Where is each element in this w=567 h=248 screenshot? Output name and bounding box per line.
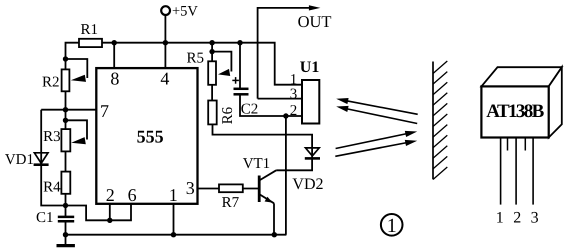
node emitter on ground rail — [272, 232, 277, 237]
svg-text:8: 8 — [110, 68, 119, 88]
wire to pins 2 and 6 — [66, 204, 132, 221]
IC U1 infrared receiver module — [300, 59, 320, 124]
svg-text:555: 555 — [137, 127, 164, 147]
resistor R3 (rheostat) — [43, 120, 87, 151]
node pin1 on ground rail — [171, 232, 176, 237]
node R5 on rail — [209, 40, 214, 45]
svg-text:R6: R6 — [220, 106, 236, 124]
svg-text:AT138B: AT138B — [486, 101, 544, 122]
svg-text:C1: C1 — [36, 210, 54, 226]
svg-text:R7: R7 — [222, 195, 240, 211]
mirror (reflective surface) — [433, 61, 447, 180]
svg-text:U1: U1 — [300, 59, 320, 76]
wire R3 to R4 — [65, 151, 67, 171]
svg-text:3: 3 — [290, 87, 298, 103]
node A (R1/R2 junction) — [63, 56, 68, 61]
node pin2-net/ground branch — [283, 113, 288, 118]
node R4/C1 junction — [63, 203, 68, 208]
svg-text:1: 1 — [169, 185, 178, 205]
wire 555... U1 pin3 — [258, 98, 302, 100]
wire emitted beam arrow 2 — [335, 140, 417, 156]
wire reflected beam arrow 1 — [336, 98, 418, 114]
capacitor C2 (polarized) — [232, 77, 258, 117]
svg-text:1: 1 — [496, 210, 504, 227]
pin 2 inner stub AT138B — [524, 138, 526, 151]
pin 1 inner stub AT138B — [507, 138, 509, 151]
svg-text:VD1: VD1 — [5, 152, 34, 168]
pin 1 lead AT138B — [500, 138, 502, 205]
resistor R4 — [43, 172, 70, 196]
node pin2 junction — [107, 218, 112, 223]
svg-text:4: 4 — [160, 68, 169, 88]
resistor R2 (rheostat) — [42, 59, 87, 91]
wire R7 to VT1 base — [243, 188, 259, 190]
wire rail to C2 — [239, 43, 241, 88]
wire R1 left branch — [66, 43, 80, 70]
node ground/C1 — [63, 232, 68, 237]
wire 555 pin3 to R7 — [198, 188, 220, 190]
wire R4 bottom to C1 — [65, 194, 67, 216]
node R5 wiper junction — [209, 49, 214, 54]
figure number 1 — [381, 214, 403, 237]
node pin7 junction — [63, 107, 68, 112]
svg-text:3: 3 — [186, 178, 195, 198]
svg-text:1: 1 — [387, 215, 397, 237]
wire pin2-net to ground rail — [285, 116, 287, 235]
wire VT1 emitter to ground rail — [273, 203, 275, 234]
capacitor C1 — [36, 210, 74, 226]
svg-text:+5V: +5V — [172, 3, 198, 19]
svg-text:R4: R4 — [43, 179, 61, 195]
svg-text:3: 3 — [531, 210, 539, 227]
svg-text:VT1: VT1 — [243, 156, 271, 172]
node pin8 on rail — [112, 40, 117, 45]
wire rail to R5 — [211, 43, 213, 62]
pin 2 lead AT138B — [515, 138, 517, 205]
resistor R6 — [208, 101, 236, 125]
wire R6 bottom to VD2 anode — [213, 124, 313, 170]
wire OUT — [258, 5, 332, 98]
wire R5 to R6 — [211, 85, 213, 101]
svg-text:2: 2 — [513, 210, 521, 227]
node R3 wiper junction — [63, 118, 68, 123]
svg-text:R5: R5 — [187, 50, 205, 66]
resistor R1 — [79, 22, 102, 47]
wire pin7 — [41, 109, 96, 111]
wire R2 bottom to R3 top — [65, 91, 67, 129]
svg-text:2: 2 — [290, 103, 298, 119]
resistor R5 (rheostat) — [187, 50, 232, 85]
transistor VT1 — [243, 156, 277, 203]
svg-text:VD2: VD2 — [292, 176, 323, 193]
svg-text:7: 7 — [100, 101, 109, 121]
svg-text:6: 6 — [128, 185, 137, 205]
wire reflected beam arrow 2 — [336, 106, 417, 124]
wire emitted beam arrow 1 — [336, 131, 418, 149]
wire C2 bottom to U1 pin2 — [240, 95, 302, 116]
power terminal +5V — [161, 3, 198, 42]
wire pin 1 stub to ground — [173, 204, 175, 235]
svg-text:R3: R3 — [43, 129, 61, 145]
wire ground rail — [66, 234, 287, 236]
pin 3 lead AT138B — [532, 138, 534, 205]
wire C1 bottom to ground rail — [65, 222, 67, 235]
diode VD1 — [5, 152, 49, 168]
wire left rail upper — [41, 110, 65, 206]
diode VD2 — [292, 148, 323, 193]
transistor AT138B package — [481, 67, 561, 137]
IC 555 timer — [96, 68, 197, 204]
node pin4/+5V on rail — [163, 40, 168, 45]
node C2 on rail — [237, 40, 242, 45]
resistor R7 — [219, 184, 243, 211]
svg-text:2: 2 — [106, 185, 115, 205]
wire pin 4 stub — [164, 43, 166, 68]
wire +5V rail to U1 pin1 — [102, 43, 302, 85]
svg-text:R2: R2 — [42, 75, 60, 91]
ground — [57, 235, 75, 246]
svg-text:OUT: OUT — [298, 12, 332, 31]
wire pin 8 stub — [113, 43, 115, 68]
svg-text:R1: R1 — [80, 22, 98, 38]
